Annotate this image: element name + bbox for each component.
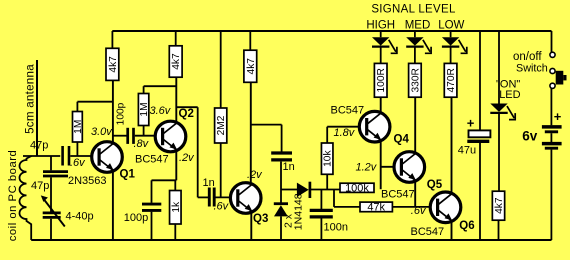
LED LOW red	[442, 37, 467, 53]
resistor 4k7 Q2 collector load	[169, 46, 182, 77]
svg-text:coil on PC board: coil on PC board	[7, 150, 19, 242]
wire Q6 emitter to ground	[451, 221, 453, 240]
wire Q1 collector	[112, 80, 114, 143]
wire 100p bypass to ground	[151, 212, 153, 240]
wire 47p branch upper	[50, 156, 52, 170]
wire 47u branch top	[479, 31, 481, 130]
trimmer capacitor 4-40p	[41, 195, 65, 226]
resistor 4k7 ON LED	[492, 191, 505, 220]
wire 47k left lead	[334, 206, 360, 208]
wire collector jog to 1n	[251, 124, 282, 126]
wire detector node to D1	[281, 189, 297, 191]
svg-text:2M2: 2M2	[216, 115, 227, 135]
resistor 47k	[360, 202, 392, 214]
svg-text:BC547: BC547	[135, 154, 169, 166]
wire Q2 collector jog	[176, 106, 197, 108]
resistor 470R LOW	[444, 63, 457, 97]
svg-text:.2v: .2v	[247, 169, 263, 181]
wire 4k7c to rail	[249, 31, 251, 50]
capacitor 100p bypass	[142, 204, 161, 210]
svg-text:.6v: .6v	[214, 200, 230, 212]
wire 2M2 to rail	[220, 31, 222, 108]
battery B1 6v	[542, 127, 562, 148]
svg-text:Q1: Q1	[120, 169, 136, 181]
wire 2M2 to Q3 base	[220, 143, 222, 197]
resistor 100R HIGH	[374, 63, 387, 97]
svg-text:330R: 330R	[410, 68, 421, 92]
svg-text:1k: 1k	[171, 201, 182, 213]
resistor 10k Q4 base	[321, 143, 333, 174]
wire Q3 emitter to ground	[250, 212, 252, 240]
svg-text:47p: 47p	[31, 180, 49, 192]
svg-text:4-40p: 4-40p	[66, 211, 94, 223]
svg-text:1M: 1M	[73, 120, 84, 134]
wire LOW LED cathode	[450, 48, 452, 64]
capacitor 47u electrolytic	[467, 130, 490, 141]
svg-text:4k7: 4k7	[246, 58, 257, 75]
svg-text:HIGH: HIGH	[366, 19, 395, 31]
resistor 4k7 Q1 collector load	[106, 48, 119, 80]
wire 100p to Q2 base	[135, 135, 163, 137]
LED HIGH red	[372, 37, 397, 53]
wire battery to ground rail	[550, 150, 552, 240]
switch SW1 on/off	[550, 52, 567, 88]
wire Q4 collector	[380, 97, 382, 113]
svg-text:.8v: .8v	[134, 138, 150, 150]
resistor 1k Q2 emitter	[170, 191, 182, 225]
svg-text:100k: 100k	[345, 182, 369, 194]
svg-text:100p: 100p	[115, 102, 126, 125]
diode D1 1N4148 series	[297, 182, 310, 198]
wire Q2 collector	[175, 77, 177, 123]
wire to Q4 base	[327, 126, 367, 128]
wire 1Mb bottom lead	[143, 126, 145, 136]
wire Q5 collector	[414, 97, 416, 153]
wire rail to switch	[551, 31, 553, 52]
wire 1M top lead	[76, 102, 78, 112]
wire HIGH LED cathode	[380, 48, 382, 64]
svg-text:47p: 47p	[30, 140, 48, 152]
svg-text:BC547: BC547	[411, 226, 445, 238]
svg-text:LOW: LOW	[438, 19, 464, 31]
wire 1n to detector node	[280, 162, 282, 204]
svg-text:1N4148: 1N4148	[292, 193, 304, 230]
svg-text:4k7: 4k7	[171, 53, 182, 70]
wire 1k to ground	[174, 224, 176, 240]
LED MED red	[406, 37, 431, 53]
svg-text:.2v: .2v	[179, 152, 195, 164]
transistor Q3 BC547	[230, 183, 261, 214]
wire 1k top lead	[174, 180, 176, 190]
wire into 1n cap	[198, 196, 209, 198]
wire 10k top	[326, 127, 328, 143]
svg-text:BC547: BC547	[381, 189, 415, 201]
wire top supply rail	[112, 30, 551, 32]
wire tuned-circuit top node	[23, 155, 60, 157]
svg-text:100n: 100n	[324, 221, 348, 233]
transistor Q5 BC547	[394, 152, 425, 183]
transistor Q2 BC547	[155, 121, 186, 152]
svg-text:Switch: Switch	[516, 63, 548, 75]
wire 1M top jog to collector	[77, 101, 112, 103]
wire bottom ground rail	[31, 239, 551, 241]
svg-text:Q5: Q5	[427, 179, 443, 191]
wire 1Mb top lead	[143, 86, 145, 93]
wire 1Mb jog to Q2 collector	[144, 85, 176, 87]
svg-text:LED: LED	[499, 89, 520, 101]
wire Q3 collector	[250, 82, 252, 184]
wire 100n to ground	[320, 218, 322, 240]
svg-text:on/off: on/off	[513, 51, 542, 63]
capacitor 100n filter	[310, 210, 333, 217]
svg-text:4k7: 4k7	[494, 197, 505, 214]
wire LOW LED anode	[450, 31, 452, 37]
svg-text:BC547: BC547	[331, 105, 365, 117]
svg-text:+: +	[467, 115, 475, 130]
svg-text:SIGNAL LEVEL: SIGNAL LEVEL	[371, 3, 456, 15]
wire 10k bottom to junction	[326, 174, 328, 189]
wire 4k7b to rail	[175, 31, 177, 46]
LED ON indicator	[490, 104, 515, 120]
capacitor 1n coupling Q3	[209, 188, 214, 207]
capacitor 1n detector	[271, 153, 292, 160]
diode D2 1N4148 shunt	[274, 204, 288, 217]
svg-text:2N3563: 2N3563	[68, 175, 107, 187]
svg-text:5cm antenna: 5cm antenna	[23, 64, 36, 134]
wire HIGH LED anode	[380, 31, 382, 37]
svg-text:100p: 100p	[124, 212, 148, 224]
wire jog down to 1n	[281, 125, 283, 152]
wire MED LED cathode	[414, 48, 416, 64]
wire Q2 emitter junction	[152, 179, 177, 181]
svg-text:4k7: 4k7	[108, 56, 119, 73]
wire 47k to Q6 base	[392, 206, 437, 208]
wire ON LED to 4k7	[498, 114, 500, 191]
wire 1n to Q3 base	[216, 196, 239, 198]
wire 47p to Q1 base	[70, 155, 99, 157]
svg-text:1M: 1M	[139, 102, 150, 116]
transistor Q1 2N3563	[92, 142, 123, 173]
svg-text:3.6v: 3.6v	[150, 105, 172, 117]
wire D2 to ground	[280, 216, 282, 240]
wire junction to 100n	[320, 190, 322, 210]
wire 1M bottom lead	[76, 142, 78, 156]
wire collector to 100p cap	[113, 135, 127, 137]
wire 47u to ground	[479, 143, 481, 240]
wire MED LED anode	[414, 31, 416, 37]
wire Q1 emitter to ground	[112, 171, 114, 240]
svg-text:470R: 470R	[446, 68, 457, 92]
wire Q2 emitter	[175, 150, 177, 180]
wire 47p to trimmer	[50, 177, 52, 211]
svg-text:Q3: Q3	[253, 213, 268, 225]
svg-text:10k: 10k	[323, 150, 334, 167]
svg-text:Q6: Q6	[459, 220, 474, 232]
wire Q4 emitter / 100k node	[380, 140, 382, 189]
svg-text:100R: 100R	[376, 68, 387, 92]
wire ON LED branch top	[498, 31, 500, 104]
inductor L1 coil on PC board	[19, 156, 31, 240]
svg-text:MED: MED	[405, 19, 431, 31]
transistor Q6 BC547	[430, 192, 461, 223]
wire trimmer to ground rail	[50, 219, 52, 240]
resistor 330R MED	[409, 63, 422, 97]
wire 4k7a to rail	[111, 31, 113, 48]
wire 47k feed	[333, 190, 335, 207]
wire Q5 emitter	[414, 181, 416, 207]
wire to 100p bypass	[151, 180, 153, 203]
svg-text:47k: 47k	[367, 202, 385, 214]
svg-text:.6v: .6v	[70, 157, 86, 169]
wire D1 to junction	[311, 189, 340, 191]
svg-text:1.2v: 1.2v	[356, 161, 378, 173]
capacitor 100p coupling	[128, 128, 134, 144]
svg-text:47u: 47u	[458, 145, 476, 157]
svg-text:1.8v: 1.8v	[334, 127, 356, 139]
antenna 5cm whip	[36, 60, 38, 156]
resistor 1M Q1 feedback	[73, 112, 84, 143]
wire 4k7d to ground	[498, 220, 500, 240]
svg-text:+: +	[554, 109, 562, 124]
wire down to 1n cap	[197, 107, 199, 197]
resistor 2M2 Q3 bias	[215, 108, 228, 143]
wire switch to battery	[550, 88, 552, 125]
resistor 100k	[340, 182, 374, 194]
svg-text:6v: 6v	[522, 129, 538, 144]
svg-text:.6v: .6v	[411, 205, 427, 217]
transistor Q4 BC547	[359, 111, 390, 142]
wire Q4 emitter to Q5 base	[381, 166, 402, 168]
svg-text:Q4: Q4	[394, 134, 410, 146]
wire Q6 collector	[451, 97, 453, 194]
resistor 4k7 Q3 collector load	[244, 50, 257, 82]
resistor 1M Q2 feedback	[138, 94, 150, 126]
svg-text:1n: 1n	[283, 161, 295, 173]
capacitor 47p parallel	[43, 172, 68, 176]
svg-text:1n: 1n	[203, 177, 215, 189]
capacitor 47p series	[63, 146, 69, 166]
svg-text:Q2: Q2	[179, 108, 194, 120]
svg-text:3.0v: 3.0v	[91, 126, 113, 138]
